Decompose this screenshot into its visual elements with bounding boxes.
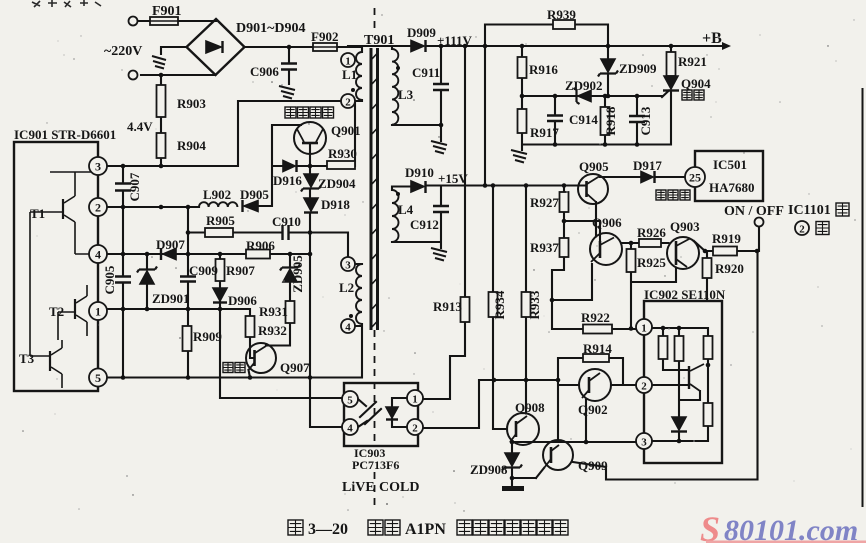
svg-text:L1: L1: [342, 67, 357, 82]
svg-text:T2: T2: [49, 304, 64, 319]
svg-text:4: 4: [345, 322, 351, 334]
svg-text:2: 2: [345, 97, 351, 109]
svg-text:R904: R904: [177, 138, 206, 153]
svg-text:D918: D918: [321, 197, 350, 212]
svg-text:+15V: +15V: [438, 171, 468, 186]
svg-text:PC713F6: PC713F6: [352, 458, 399, 472]
svg-text:A1PN: A1PN: [405, 521, 446, 538]
svg-text:R927: R927: [530, 195, 559, 210]
svg-text:C914: C914: [569, 112, 598, 127]
svg-text:R914: R914: [583, 341, 612, 356]
svg-text:R907: R907: [226, 263, 255, 278]
svg-text:C907: C907: [127, 172, 142, 201]
svg-text:R930: R930: [328, 146, 357, 161]
svg-text:80101.com: 80101.com: [724, 514, 858, 543]
svg-text:D909: D909: [407, 25, 436, 40]
svg-text:1: 1: [412, 394, 418, 406]
svg-text:R926: R926: [637, 225, 666, 240]
svg-text:5: 5: [95, 371, 101, 385]
svg-text:2: 2: [799, 224, 805, 236]
svg-text:3: 3: [95, 160, 101, 174]
svg-text:R917: R917: [530, 125, 559, 140]
svg-text:D917: D917: [633, 158, 662, 173]
svg-text:L3: L3: [398, 87, 414, 102]
svg-text:R905: R905: [206, 213, 235, 228]
svg-text:Q902: Q902: [578, 402, 608, 417]
svg-text:1: 1: [345, 56, 351, 68]
svg-text:F901: F901: [152, 4, 182, 19]
svg-text:D916: D916: [273, 173, 302, 188]
svg-text:4: 4: [347, 423, 353, 435]
svg-text:C909: C909: [189, 263, 218, 278]
svg-text:HA7680: HA7680: [709, 180, 755, 195]
svg-text:Q908: Q908: [515, 400, 545, 415]
svg-text:2: 2: [412, 423, 418, 435]
svg-text:T901: T901: [364, 33, 394, 48]
svg-text:3: 3: [641, 437, 647, 449]
svg-text:R939: R939: [547, 7, 576, 22]
svg-text:2: 2: [95, 201, 101, 215]
svg-text:R925: R925: [637, 255, 666, 270]
svg-text:C910: C910: [272, 214, 301, 229]
svg-text:C911: C911: [412, 65, 440, 80]
svg-text:R932: R932: [258, 323, 287, 338]
svg-text:R919: R919: [712, 231, 741, 246]
svg-text:~220V: ~220V: [104, 44, 142, 59]
svg-text:Q907: Q907: [280, 360, 310, 375]
svg-text:D910: D910: [405, 165, 434, 180]
svg-text:R937: R937: [530, 240, 559, 255]
svg-text:C913: C913: [638, 106, 653, 135]
svg-text:C906: C906: [250, 64, 279, 79]
svg-text:ZD909: ZD909: [619, 61, 657, 76]
svg-text:ZD908: ZD908: [470, 462, 508, 477]
svg-text:COLD: COLD: [379, 480, 419, 495]
svg-text:5: 5: [347, 395, 353, 407]
svg-text:F902: F902: [311, 29, 338, 44]
svg-text:1: 1: [95, 305, 101, 319]
svg-text:Q903: Q903: [670, 219, 700, 234]
svg-text:Q909: Q909: [578, 458, 608, 473]
svg-text:T1: T1: [30, 206, 45, 221]
svg-text:R933: R933: [527, 290, 542, 319]
svg-text:+111V: +111V: [437, 33, 472, 48]
svg-text:Q904: Q904: [681, 76, 711, 91]
svg-text:+B: +B: [702, 30, 722, 47]
svg-text:D901~D904: D901~D904: [236, 21, 306, 36]
svg-text:Q906: Q906: [592, 215, 622, 230]
svg-text:ON / OFF: ON / OFF: [724, 204, 784, 219]
svg-text:Q901: Q901: [331, 123, 361, 138]
svg-text:R903: R903: [177, 96, 206, 111]
svg-text:ZD904: ZD904: [318, 176, 356, 191]
svg-text:L2: L2: [339, 280, 354, 295]
svg-text:3—20: 3—20: [308, 521, 348, 538]
svg-text:ZD902: ZD902: [565, 78, 603, 93]
svg-text:R913: R913: [433, 299, 462, 314]
svg-text:1: 1: [641, 323, 647, 335]
svg-text:R918: R918: [603, 106, 618, 135]
svg-text:4.4V: 4.4V: [127, 119, 153, 134]
svg-text:R934: R934: [492, 290, 507, 319]
svg-text:S: S: [700, 509, 720, 543]
svg-text:IC501: IC501: [713, 157, 747, 172]
svg-text:3: 3: [345, 260, 351, 272]
svg-text:2: 2: [641, 381, 647, 393]
svg-text:IC901 STR-D6601: IC901 STR-D6601: [14, 127, 116, 142]
svg-text:25: 25: [689, 171, 701, 185]
svg-text:4: 4: [95, 248, 101, 262]
svg-text:LiVE: LiVE: [342, 480, 375, 495]
svg-text:T3: T3: [19, 351, 35, 366]
svg-text:R931: R931: [259, 304, 288, 319]
svg-text:ZD901: ZD901: [152, 291, 190, 306]
svg-text:R906: R906: [246, 238, 275, 253]
svg-text:C912: C912: [410, 217, 439, 232]
svg-text:R921: R921: [678, 54, 707, 69]
svg-text:C905: C905: [102, 265, 117, 294]
svg-text:R922: R922: [581, 310, 610, 325]
svg-text:D906: D906: [228, 293, 257, 308]
svg-text:L902: L902: [203, 187, 231, 202]
svg-text:D905: D905: [240, 187, 269, 202]
svg-text:R909: R909: [193, 329, 222, 344]
svg-text:L4: L4: [398, 202, 414, 217]
svg-text:IC902 SE110N: IC902 SE110N: [644, 287, 726, 302]
svg-text:R920: R920: [715, 261, 744, 276]
svg-text:ZD905: ZD905: [290, 255, 305, 293]
svg-text:D907: D907: [156, 237, 185, 252]
svg-text:R916: R916: [529, 62, 558, 77]
svg-text:IC1101: IC1101: [788, 203, 831, 218]
svg-text:Q905: Q905: [579, 159, 609, 174]
